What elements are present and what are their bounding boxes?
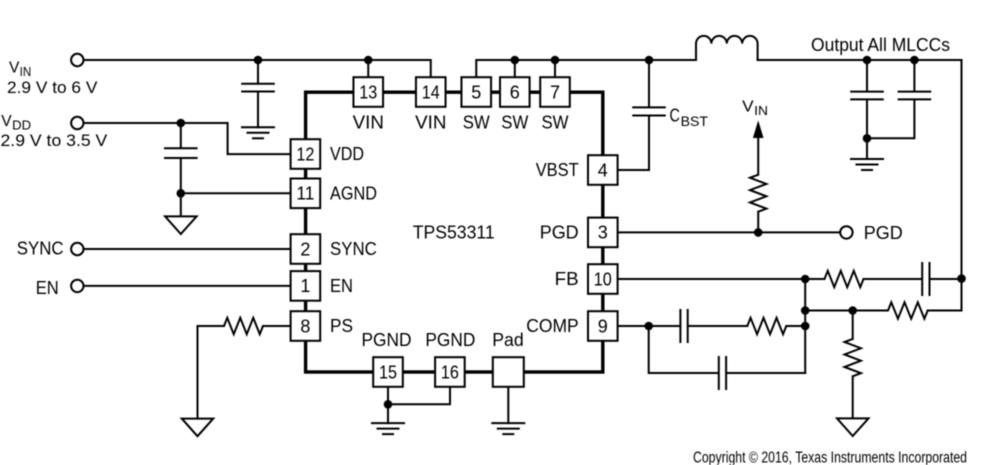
svg-text:V: V [9, 60, 20, 77]
svg-text:9: 9 [598, 316, 608, 336]
svg-text:AGND: AGND [330, 184, 377, 204]
svg-text:11: 11 [296, 184, 314, 204]
svg-text:Pad: Pad [492, 330, 524, 350]
svg-text:SYNC: SYNC [17, 238, 64, 258]
svg-text:13: 13 [359, 82, 377, 102]
svg-text:5: 5 [471, 82, 481, 102]
svg-text:IN: IN [754, 104, 768, 118]
svg-text:2.9 V to 3.5 V: 2.9 V to 3.5 V [1, 131, 108, 150]
svg-text:PGND: PGND [425, 330, 475, 350]
svg-text:PGND: PGND [362, 330, 412, 350]
svg-text:Copyright © 2016, Texas Instru: Copyright © 2016, Texas Instruments Inco… [693, 450, 967, 465]
svg-text:14: 14 [422, 82, 440, 102]
svg-text:4: 4 [598, 160, 608, 180]
svg-text:SW: SW [463, 113, 490, 133]
svg-text:2: 2 [300, 239, 310, 259]
svg-text:6: 6 [510, 82, 520, 102]
svg-text:EN: EN [36, 278, 59, 298]
svg-text:V: V [742, 98, 754, 115]
svg-text:PGD: PGD [540, 223, 579, 243]
svg-text:12: 12 [296, 144, 314, 164]
svg-text:16: 16 [441, 362, 459, 382]
svg-text:10: 10 [594, 269, 612, 289]
svg-text:15: 15 [379, 362, 397, 382]
svg-text:VDD: VDD [330, 144, 364, 164]
svg-text:C: C [670, 104, 680, 125]
svg-text:PS: PS [330, 316, 353, 336]
svg-text:1: 1 [300, 276, 310, 296]
svg-text:8: 8 [300, 316, 310, 336]
svg-text:VIN: VIN [415, 113, 446, 133]
svg-text:2.9 V to 6 V: 2.9 V to 6 V [7, 78, 98, 97]
svg-text:3: 3 [598, 223, 608, 243]
svg-text:VIN: VIN [353, 113, 384, 133]
svg-text:FB: FB [555, 269, 579, 289]
svg-text:PGD: PGD [864, 223, 903, 243]
svg-text:EN: EN [330, 276, 353, 296]
svg-text:SW: SW [542, 113, 569, 133]
svg-text:SYNC: SYNC [330, 239, 377, 259]
svg-text:Output All MLCCs: Output All MLCCs [811, 34, 950, 55]
svg-text:TPS53311: TPS53311 [413, 221, 495, 242]
svg-text:VBST: VBST [536, 160, 579, 180]
svg-text:BST: BST [681, 114, 708, 129]
svg-text:7: 7 [550, 82, 560, 102]
svg-text:SW: SW [501, 113, 528, 133]
svg-text:V: V [1, 113, 12, 130]
svg-text:COMP: COMP [526, 316, 579, 336]
